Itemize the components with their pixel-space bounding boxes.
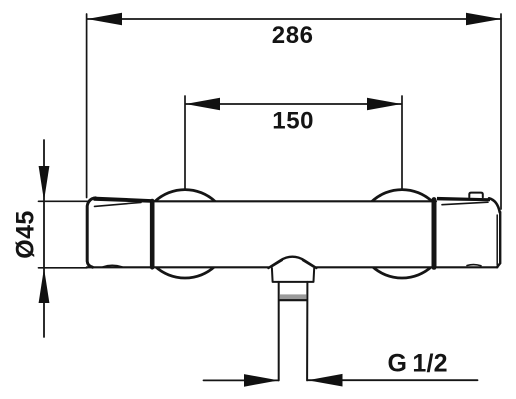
escutcheon circle right: [358, 190, 446, 278]
junction ring left thick: [150, 201, 155, 267]
extension line D45 bottom: [39, 267, 88, 269]
dome chamfer lines: [272, 260, 283, 267]
volume handle right: [437, 193, 500, 268]
body top outline: [150, 200, 436, 202]
extension line right of 150: [401, 96, 403, 190]
escutcheon circle left: [141, 190, 229, 278]
arrowhead 286 right: [466, 13, 501, 26]
outlet dome: [268, 257, 316, 268]
button tab on handle: [469, 193, 483, 198]
arrowhead G1/2 pointing right: [244, 374, 279, 387]
body bottom outline left segment: [87, 266, 269, 268]
thread band lower line: [280, 299, 307, 301]
body bottom outline right segment: [316, 266, 497, 268]
thread band gray: [280, 294, 307, 299]
extension line left of 150: [184, 96, 186, 189]
arrowhead 286 left: [87, 13, 122, 26]
dimension line 150: [186, 103, 402, 105]
dimension line 286: [87, 18, 501, 20]
arrowhead D45 bottom pointing up: [39, 268, 50, 303]
svg-text:150: 150: [272, 108, 314, 135]
outlet flange: [272, 268, 314, 282]
arrowhead G1/2 pointing left: [308, 374, 343, 387]
svg-text:286: 286: [272, 22, 314, 49]
outlet pipe walls: [278, 282, 280, 381]
extension line D45 top: [39, 200, 91, 202]
extension line right of 286: [500, 14, 502, 209]
arrowhead 150 right: [367, 98, 402, 111]
dimension G1/2 right segment: [308, 379, 478, 381]
arrowhead 150 left: [186, 98, 221, 111]
dimension line D45 vertical: [43, 140, 45, 337]
dimension G1/2 left segment: [204, 379, 279, 381]
svg-text:Ø45: Ø45: [11, 210, 39, 258]
temperature handle left: [87, 197, 151, 268]
arrowhead D45 top pointing down: [39, 166, 50, 201]
junction ring right thick: [432, 200, 437, 268]
svg-text:G 1/2: G 1/2: [387, 350, 447, 378]
extension line left of 286: [86, 14, 88, 198]
